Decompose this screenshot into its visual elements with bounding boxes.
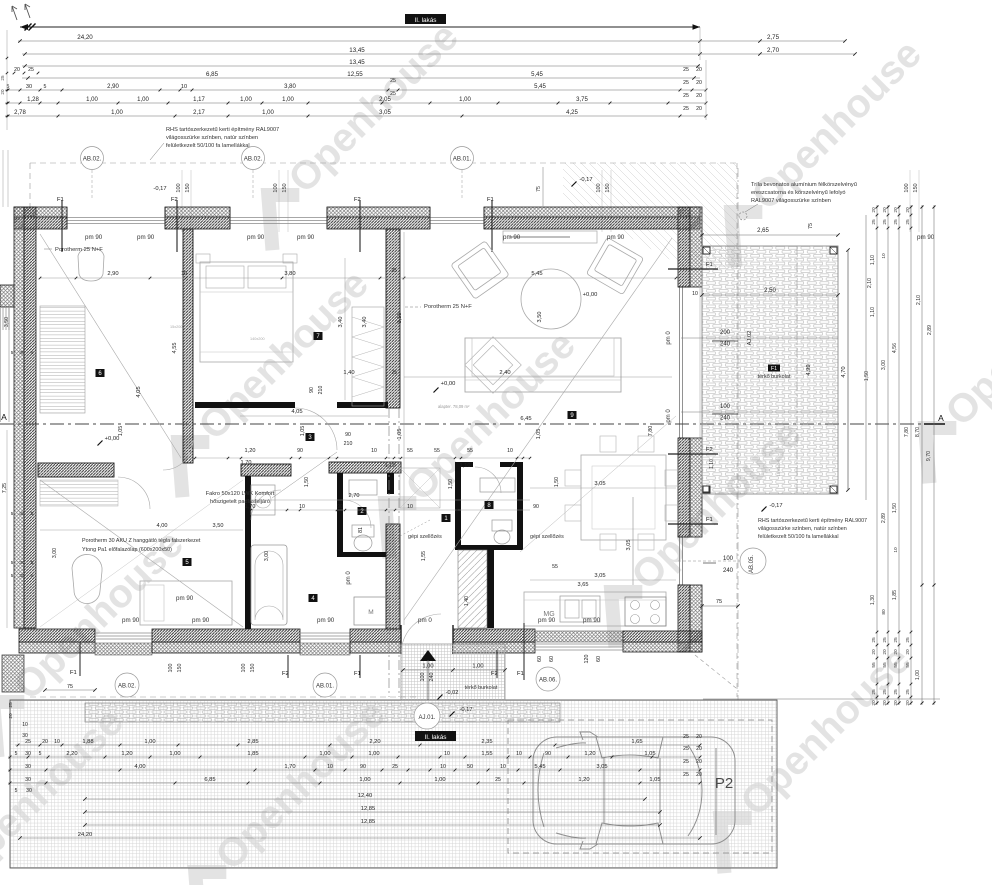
svg-text:90: 90 <box>345 432 351 438</box>
svg-text:1,05: 1,05 <box>397 429 403 440</box>
svg-text:25: 25 <box>391 370 397 376</box>
left plan-edge vertical lines <box>2 150 4 207</box>
svg-text:60: 60 <box>549 656 555 662</box>
svg-text:3,50: 3,50 <box>397 313 403 324</box>
svg-text:2,89: 2,89 <box>881 513 887 523</box>
svg-text:55: 55 <box>893 662 899 668</box>
living armchair 2 rotated <box>586 237 643 294</box>
svg-text:200: 200 <box>720 330 731 336</box>
svg-text:Fakro 50x120 LWK Komfort: Fakro 50x120 LWK Komfort <box>206 491 275 497</box>
svg-text:25: 25 <box>495 777 501 783</box>
svg-text:10: 10 <box>500 764 506 770</box>
washbasin room4 <box>251 485 275 515</box>
svg-text:RHS tartószerkezetű kerti épít: RHS tartószerkezetű kerti építmény RAL90… <box>758 518 867 524</box>
svg-text:1,40: 1,40 <box>343 370 354 376</box>
svg-text:2,17: 2,17 <box>193 110 205 116</box>
svg-text:F1: F1 <box>517 671 524 677</box>
svg-text:25: 25 <box>28 67 34 73</box>
wall D wc2 <box>337 473 343 557</box>
AJ.01 circle <box>414 703 440 729</box>
bottom wall window AB.02 bottom <box>95 632 152 634</box>
living diagonal <box>404 238 672 620</box>
svg-text:100: 100 <box>273 183 279 192</box>
attic hatch black bar <box>337 402 388 408</box>
svg-text:M: M <box>368 609 373 616</box>
svg-text:5: 5 <box>39 751 42 757</box>
bath top wall A <box>241 464 291 476</box>
svg-text:térkő burkolat: térkő burkolat <box>465 685 498 691</box>
svg-text:140x200: 140x200 <box>250 337 265 341</box>
right dim bottom arrows <box>921 584 924 587</box>
svg-text:pm 0: pm 0 <box>418 617 432 624</box>
svg-text:25: 25 <box>683 734 689 740</box>
svg-text:20: 20 <box>882 207 888 213</box>
svg-text:pm 90: pm 90 <box>192 617 210 624</box>
terrace dim row 1 <box>15 744 700 746</box>
terrace dim 12,40 <box>85 798 645 800</box>
svg-text:55: 55 <box>905 662 911 668</box>
svg-text:75: 75 <box>536 186 542 192</box>
svg-text:4,25: 4,25 <box>566 110 578 116</box>
svg-text:3,00: 3,00 <box>881 360 887 370</box>
svg-text:1,00: 1,00 <box>422 664 433 670</box>
window top small (gap3) glazing <box>430 217 484 219</box>
bathtub room4 <box>251 545 287 625</box>
interior vertical dim living <box>403 232 405 625</box>
svg-text:1,17: 1,17 <box>193 97 205 103</box>
svg-text:25: 25 <box>905 637 911 643</box>
svg-text:55: 55 <box>882 662 888 668</box>
window flag F2 bottom right <box>496 650 498 678</box>
svg-text:1,00: 1,00 <box>472 664 483 670</box>
svg-text:20: 20 <box>696 772 702 778</box>
right dim line 1,50 <box>865 215 867 500</box>
svg-text:2,75: 2,75 <box>767 34 780 41</box>
dining chairs <box>565 470 581 486</box>
svg-text:1,50: 1,50 <box>448 479 454 489</box>
car P2 top view <box>533 732 735 849</box>
svg-text:100: 100 <box>168 664 174 673</box>
svg-text:5: 5 <box>31 511 34 516</box>
svg-text:60: 60 <box>596 656 602 662</box>
svg-text:90: 90 <box>309 387 315 393</box>
svg-text:pm 90: pm 90 <box>85 234 103 241</box>
room box 3 <box>306 433 315 441</box>
svg-text:5: 5 <box>31 573 34 578</box>
svg-text:12,85: 12,85 <box>361 806 376 812</box>
svg-text:Porotherm 30 AKU Z hanggátló t: Porotherm 30 AKU Z hanggátló tégla falsz… <box>82 538 201 544</box>
svg-text:RAL9007 világosszürke színben: RAL9007 világosszürke színben <box>751 198 831 204</box>
room box 7 <box>314 332 323 340</box>
living armchair 1 rotated <box>451 241 509 299</box>
bottom wall segment far-left corner <box>19 629 95 642</box>
svg-text:1,28: 1,28 <box>27 97 39 103</box>
svg-text:80: 80 <box>881 609 887 615</box>
svg-text:1,50: 1,50 <box>892 503 898 513</box>
dim 75 bottom-left <box>45 689 95 691</box>
svg-text:2,70: 2,70 <box>767 47 780 54</box>
dim 75 right of bottom wall <box>702 605 738 607</box>
left bottom hatch block <box>2 655 24 692</box>
svg-text:2,10: 2,10 <box>867 278 873 288</box>
svg-text:RHS tartószerkezetű kerti épít: RHS tartószerkezetű kerti építmény RAL90… <box>166 127 279 133</box>
svg-text:AJ.02: AJ.02 <box>747 331 753 346</box>
section line A-A <box>0 423 945 425</box>
top dim line II. lakas <box>20 26 700 28</box>
svg-text:pm 90: pm 90 <box>297 234 315 241</box>
pergola window 100/240 dims <box>681 411 838 413</box>
svg-text:20: 20 <box>696 80 702 86</box>
svg-text:20: 20 <box>893 649 899 655</box>
top wall segment 3 <box>327 207 430 217</box>
svg-text:10: 10 <box>881 253 887 259</box>
room7 bed <box>200 262 293 362</box>
svg-text:AB.01.: AB.01. <box>316 684 334 690</box>
svg-text:240: 240 <box>720 416 731 422</box>
svg-text:25: 25 <box>390 78 396 84</box>
pergola centre dashdot lines <box>737 168 739 700</box>
svg-text:2,90: 2,90 <box>107 271 118 277</box>
svg-text:25: 25 <box>683 746 689 752</box>
living TV bench <box>503 231 597 243</box>
AB.02 circle top 1 <box>81 147 104 170</box>
top dim row 2,78 / 1,00 / 2,17 ... <box>5 115 706 117</box>
svg-text:150: 150 <box>605 183 611 192</box>
svg-text:5: 5 <box>31 560 34 565</box>
interior wall W1 room6/room7 <box>183 229 193 463</box>
right wall lower corner segment <box>678 585 690 652</box>
svg-text:1,70: 1,70 <box>284 764 295 770</box>
svg-text:5: 5 <box>11 511 14 516</box>
svg-text:1,10: 1,10 <box>385 463 396 469</box>
svg-text:F1: F1 <box>70 670 77 676</box>
svg-text:2,90: 2,90 <box>107 84 119 90</box>
svg-text:25: 25 <box>871 637 877 643</box>
svg-text:10: 10 <box>181 84 187 90</box>
svg-text:240: 240 <box>429 673 435 682</box>
vertical connector right of rows <box>705 60 707 120</box>
AB.02 circle top 2 <box>242 147 265 170</box>
room5 armchair <box>72 554 102 603</box>
svg-text:világosszürke színben, natúr s: világosszürke színben, natúr színben <box>758 526 847 532</box>
room8 toilet <box>492 520 512 531</box>
svg-text:25: 25 <box>683 106 689 112</box>
svg-text:1,65: 1,65 <box>631 739 642 745</box>
svg-text:5: 5 <box>44 84 47 90</box>
svg-text:1,85: 1,85 <box>247 751 258 757</box>
entrance door opening <box>400 625 402 654</box>
svg-text:20: 20 <box>0 89 5 95</box>
svg-text:II. lakás: II. lakás <box>414 17 436 24</box>
svg-text:10: 10 <box>893 547 899 553</box>
svg-text:210: 210 <box>318 386 324 395</box>
window flag F2 top a <box>176 200 178 252</box>
AB.01 circle bottom <box>313 673 337 697</box>
svg-text:75: 75 <box>67 684 73 690</box>
AB.02 circle bottom <box>115 673 139 697</box>
overhang dim 75 <box>542 167 544 206</box>
svg-text:2,78: 2,78 <box>14 110 26 116</box>
svg-text:1,20: 1,20 <box>578 777 589 783</box>
room8 wall top-left piece <box>455 462 473 467</box>
window top F2 (gap2) glazing <box>230 217 327 219</box>
svg-text:2,65: 2,65 <box>757 228 769 234</box>
svg-text:25: 25 <box>392 764 398 770</box>
svg-text:25: 25 <box>683 93 689 99</box>
room7 nightstands <box>196 254 210 263</box>
window flag F2 top b <box>359 200 361 252</box>
svg-text:30: 30 <box>25 751 31 757</box>
svg-text:1,05: 1,05 <box>118 426 124 437</box>
svg-text:1,50: 1,50 <box>864 371 870 381</box>
svg-text:2,35: 2,35 <box>481 739 492 745</box>
right wall upper segment <box>678 207 690 287</box>
svg-text:2,40: 2,40 <box>499 370 510 376</box>
svg-text:1,00: 1,00 <box>915 670 921 680</box>
svg-text:F1: F1 <box>57 197 64 203</box>
svg-text:felületkezelt 50/100 fa lamell: felületkezelt 50/100 fa lamellákkal <box>166 143 250 149</box>
window flag F1 bottom right <box>523 623 525 680</box>
svg-text:81: 81 <box>358 527 364 533</box>
svg-text:pm 0: pm 0 <box>666 409 672 423</box>
svg-text:ereszcsatorna és körszelvényű: ereszcsatorna és körszelvényű lefolyó <box>751 190 846 196</box>
right wall window flag F1 upper <box>668 268 718 270</box>
room8 wall right <box>517 462 523 550</box>
svg-text:A: A <box>1 412 7 422</box>
big south terrace dotted paving <box>10 700 777 868</box>
svg-text:55: 55 <box>467 448 473 454</box>
svg-text:F1: F1 <box>706 517 713 523</box>
svg-text:25: 25 <box>871 689 877 695</box>
corridor dim line y456 <box>195 457 530 459</box>
svg-text:30: 30 <box>19 511 25 517</box>
svg-text:150: 150 <box>282 183 288 192</box>
svg-text:1,05: 1,05 <box>300 426 306 437</box>
svg-text:pm 90: pm 90 <box>247 234 265 241</box>
svg-text:1,05: 1,05 <box>536 429 542 440</box>
svg-text:1,00: 1,00 <box>137 97 149 103</box>
svg-text:90: 90 <box>297 448 303 454</box>
svg-text:4,99: 4,99 <box>806 364 812 375</box>
svg-text:1,00: 1,00 <box>262 110 274 116</box>
svg-text:gépi szellőzés: gépi szellőzés <box>530 534 564 540</box>
bottom wall segment 5 corner <box>623 631 702 642</box>
svg-text:5: 5 <box>15 788 18 794</box>
svg-text:2,70: 2,70 <box>349 493 360 499</box>
svg-text:1,20: 1,20 <box>245 448 256 454</box>
svg-text:75: 75 <box>808 223 814 229</box>
door arcs <box>295 408 337 450</box>
svg-text:pm 0: pm 0 <box>666 331 672 345</box>
svg-text:2,05: 2,05 <box>379 97 391 103</box>
pergola rotated dims 4,99 4,70 <box>847 250 849 490</box>
svg-text:10: 10 <box>444 751 450 757</box>
svg-text:25: 25 <box>893 689 899 695</box>
svg-text:-0,17: -0,17 <box>579 177 592 183</box>
svg-text:150: 150 <box>177 664 183 673</box>
svg-text:Ytong Pa1 előfalazólap (600x20: Ytong Pa1 előfalazólap (600x200x50) <box>82 547 172 553</box>
svg-text:13,45: 13,45 <box>349 47 365 54</box>
svg-text:90: 90 <box>533 504 539 510</box>
svg-text:2,20: 2,20 <box>369 739 380 745</box>
kitchen stove <box>625 597 666 626</box>
wall E wc2 bottom <box>337 552 386 557</box>
terrace dim row 4 <box>8 782 700 784</box>
svg-text:1,55: 1,55 <box>421 551 427 561</box>
svg-text:2,50: 2,50 <box>764 288 776 294</box>
svg-text:90: 90 <box>545 751 551 757</box>
svg-text:210: 210 <box>344 441 353 447</box>
svg-text:7,80: 7,80 <box>648 426 654 437</box>
window axis drops from circles <box>91 170 93 200</box>
terrace top brick strip <box>85 703 560 722</box>
bottom wall segment 3 <box>350 629 401 642</box>
svg-text:5: 5 <box>11 350 14 355</box>
svg-text:4,05: 4,05 <box>291 409 302 415</box>
svg-text:F1: F1 <box>354 671 361 677</box>
right wall window flag F2 lower <box>668 453 718 455</box>
svg-text:10: 10 <box>507 448 513 454</box>
svg-text:pm 90: pm 90 <box>176 595 194 602</box>
svg-text:AB.02.: AB.02. <box>83 156 102 163</box>
svg-text:100: 100 <box>241 664 247 673</box>
svg-text:150: 150 <box>185 183 191 192</box>
svg-text:20: 20 <box>893 700 899 706</box>
left edge small dims <box>6 30 8 130</box>
svg-text:20: 20 <box>8 713 14 719</box>
room6 armchair <box>78 248 104 281</box>
pergola AJ.02 opening dims <box>681 337 838 339</box>
svg-text:20: 20 <box>871 649 877 655</box>
svg-text:alapter. 78,09 m²: alapter. 78,09 m² <box>438 404 470 409</box>
svg-text:150: 150 <box>250 664 256 673</box>
left wall window bay <box>0 285 14 307</box>
room5 radiator strip <box>40 480 118 506</box>
svg-text:20: 20 <box>42 739 48 745</box>
living sofa <box>465 338 621 392</box>
svg-text:100: 100 <box>720 404 731 410</box>
svg-text:30: 30 <box>19 350 25 356</box>
svg-text:pm 90: pm 90 <box>503 234 521 241</box>
svg-text:1,70: 1,70 <box>245 504 256 510</box>
svg-text:25: 25 <box>893 219 899 225</box>
svg-text:+0,00: +0,00 <box>441 381 456 387</box>
room8 washbasin <box>480 478 515 492</box>
svg-text:25: 25 <box>0 75 5 81</box>
svg-text:3,80: 3,80 <box>284 271 295 277</box>
svg-text:30: 30 <box>26 788 32 794</box>
svg-text:30: 30 <box>19 560 25 566</box>
svg-text:AB.02.: AB.02. <box>118 684 136 690</box>
room box 5 <box>183 558 192 566</box>
svg-text:30: 30 <box>25 777 31 783</box>
svg-text:20: 20 <box>696 734 702 740</box>
svg-text:3,40: 3,40 <box>362 317 368 328</box>
dim 3,05 vertical right <box>632 497 634 585</box>
room box 2 <box>358 507 367 515</box>
svg-text:20: 20 <box>696 67 702 73</box>
svg-text:20: 20 <box>871 207 877 213</box>
svg-text:100: 100 <box>420 673 426 682</box>
room8 wall top-right piece <box>500 462 523 467</box>
svg-text:55: 55 <box>552 564 558 570</box>
svg-text:240: 240 <box>720 342 731 348</box>
svg-text:gépi szellőzés: gépi szellőzés <box>408 534 442 540</box>
pergola dim 2,50 <box>702 294 838 296</box>
terrace dim 12,85 b <box>85 824 660 826</box>
svg-text:5: 5 <box>31 350 34 355</box>
svg-text:1,00: 1,00 <box>459 97 471 103</box>
living round table <box>521 269 581 329</box>
room7 bottom bar left <box>195 402 295 408</box>
svg-text:1,00: 1,00 <box>111 110 123 116</box>
svg-text:15x200: 15x200 <box>170 325 182 329</box>
right wall window 100/240 glazing <box>679 537 681 585</box>
svg-text:3,75: 3,75 <box>576 97 588 103</box>
svg-text:-0,17: -0,17 <box>459 707 472 713</box>
svg-text:pm 0: pm 0 <box>346 571 352 585</box>
room box 6 <box>96 369 105 377</box>
svg-text:5: 5 <box>11 560 14 565</box>
svg-text:3,65: 3,65 <box>578 582 589 588</box>
top dim row 13,45 / 2,70 <box>22 53 855 55</box>
room5 door arc <box>118 477 150 509</box>
svg-text:5,45: 5,45 <box>531 72 543 78</box>
svg-text:1,00: 1,00 <box>282 97 294 103</box>
svg-text:1,70: 1,70 <box>241 460 252 466</box>
svg-text:25: 25 <box>683 759 689 765</box>
svg-text:pm 90: pm 90 <box>122 617 140 624</box>
terrace dim 12,85 a <box>85 811 660 813</box>
svg-text:24,20: 24,20 <box>77 34 93 41</box>
right dim block verticals <box>876 205 878 705</box>
window top F1 (gap1) glazing <box>67 217 165 219</box>
top-left corner arrows <box>12 6 17 20</box>
room7 closet zigzag <box>352 307 384 406</box>
svg-text:25: 25 <box>905 689 911 695</box>
svg-text:1,20: 1,20 <box>584 751 595 757</box>
wall C room5/bath <box>245 476 251 629</box>
AB.01 circle top <box>451 147 474 170</box>
svg-text:25: 25 <box>390 91 396 97</box>
svg-text:5,45: 5,45 <box>531 271 542 277</box>
svg-text:1,10: 1,10 <box>460 463 471 469</box>
svg-text:1,55: 1,55 <box>481 751 492 757</box>
svg-text:AB.06.: AB.06. <box>539 678 557 684</box>
svg-text:7,80: 7,80 <box>904 427 910 437</box>
svg-text:12,40: 12,40 <box>358 793 373 799</box>
svg-text:25: 25 <box>905 219 911 225</box>
svg-text:100: 100 <box>176 183 182 192</box>
wall G hatched <box>386 524 400 629</box>
svg-text:4,56: 4,56 <box>892 343 898 353</box>
svg-text:1,10: 1,10 <box>870 255 876 265</box>
window flag F1 top <box>61 200 63 252</box>
svg-text:30: 30 <box>26 84 32 90</box>
corner dashed diagonal <box>695 655 736 688</box>
svg-text:felületkezelt 50/100 fa lamell: felületkezelt 50/100 fa lamellákkal <box>758 534 839 540</box>
terrace dim 24,20 <box>20 837 700 839</box>
svg-text:pm 90: pm 90 <box>583 617 601 624</box>
downpipe dashed circle <box>739 212 747 220</box>
svg-text:világosszürke színben, natúr s: világosszürke színben, natúr színben <box>166 135 258 141</box>
svg-text:1,00: 1,00 <box>169 751 180 757</box>
car parking dashed box <box>508 720 772 853</box>
svg-text:7,25: 7,25 <box>2 483 8 493</box>
top dim row 12,55 <box>22 77 700 79</box>
svg-text:Porotherm 25 N+F: Porotherm 25 N+F <box>424 304 472 310</box>
svg-text:13,45: 13,45 <box>349 59 365 66</box>
